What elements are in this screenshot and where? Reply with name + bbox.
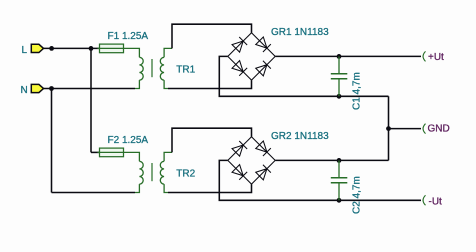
junction GND: [386, 126, 391, 131]
capacitor C1: [331, 56, 348, 96]
diode GR1 B-R: [252, 56, 276, 80]
junction L pin: [49, 46, 54, 51]
svg-text:L: L: [22, 45, 28, 56]
junction C2 top: [337, 158, 342, 163]
svg-text:GR1 1N1183: GR1 1N1183: [271, 27, 329, 38]
wire GND lead: [389, 128, 422, 130]
wire N branch down: [51, 89, 53, 193]
wire GND bus: [388, 96, 390, 160]
wire TR2 sec bottom to GR2: [168, 184, 252, 192]
wire L branch down to F2: [90, 48, 92, 152]
terminal +Ut: [423, 51, 425, 61]
label GR2 1N1183: [271, 131, 329, 142]
svg-text:+Ut: +Ut: [428, 52, 444, 63]
label L: [22, 45, 28, 56]
wire fuse F1 to TR1 primary: [126, 48, 140, 57]
label TR1: [176, 65, 195, 76]
svg-text:N: N: [21, 85, 28, 96]
terminal -Ut: [423, 195, 425, 205]
bridge rectifier GR1: [228, 33, 275, 80]
wire N to TR1 primary: [44, 88, 136, 90]
label GR1 1N1183: [271, 27, 329, 38]
wire fuse F2 to TR2 primary: [126, 152, 140, 161]
label C2 4,7m: [351, 176, 362, 214]
wire TR1 sec bottom to GR1: [168, 80, 252, 88]
diode GR2 L-T: [228, 137, 252, 161]
label GND: [428, 124, 450, 135]
junction N branch: [49, 86, 54, 91]
label F2 1.25A: [108, 135, 149, 146]
label N: [21, 85, 28, 96]
capacitor C2: [331, 160, 348, 200]
transformer TR2: [135, 152, 172, 192]
junction C2 bottom: [337, 198, 342, 203]
fuse F2: [98, 148, 126, 157]
wire N branch to TR2 primary: [52, 192, 136, 194]
label +Ut: [428, 52, 444, 63]
svg-text:GND: GND: [428, 124, 450, 135]
junction L branch: [89, 46, 94, 51]
wire TR1 sec top to GR1: [172, 24, 252, 48]
svg-text:TR2: TR2: [176, 169, 195, 180]
connector L: [31, 44, 43, 52]
wire GR2 minus to -Ut: [219, 160, 421, 200]
svg-text:-Ut: -Ut: [429, 196, 443, 207]
wire L input: [44, 47, 100, 49]
diode GR2 B-R: [252, 160, 276, 184]
bridge rectifier GR2: [228, 137, 275, 184]
svg-text:F2 1.25A: F2 1.25A: [108, 135, 149, 146]
svg-text:F1 1.25A: F1 1.25A: [108, 31, 149, 42]
diode GR2 L-B: [228, 160, 252, 184]
label C1 4,7m: [351, 72, 362, 110]
diode GR1 L-B: [228, 56, 252, 80]
svg-text:C1 4,7m: C1 4,7m: [351, 72, 362, 110]
diode GR1 T-R: [252, 33, 276, 57]
svg-text:TR1: TR1: [176, 65, 195, 76]
junction C1 bottom: [337, 94, 342, 99]
diode GR2 T-R: [252, 137, 276, 161]
svg-text:GR2 1N1183: GR2 1N1183: [271, 131, 329, 142]
label -Ut: [429, 196, 443, 207]
connector N: [31, 84, 43, 92]
label TR2: [176, 169, 195, 180]
wire TR2 sec top to GR2: [172, 128, 252, 152]
wire F2 input stub: [91, 151, 100, 153]
wire GR1 minus bus: [219, 56, 388, 96]
fuse F1: [98, 44, 126, 53]
diode GR1 L-T: [228, 33, 252, 57]
svg-text:C2 4,7m: C2 4,7m: [351, 176, 362, 214]
transformer TR1: [135, 48, 172, 88]
junction C1 top: [337, 54, 342, 59]
terminal GND: [423, 124, 425, 134]
wire GR2 plus to GND bus: [275, 159, 388, 161]
wire GR1 plus to +Ut: [275, 55, 421, 57]
label F1 1.25A: [108, 31, 149, 42]
